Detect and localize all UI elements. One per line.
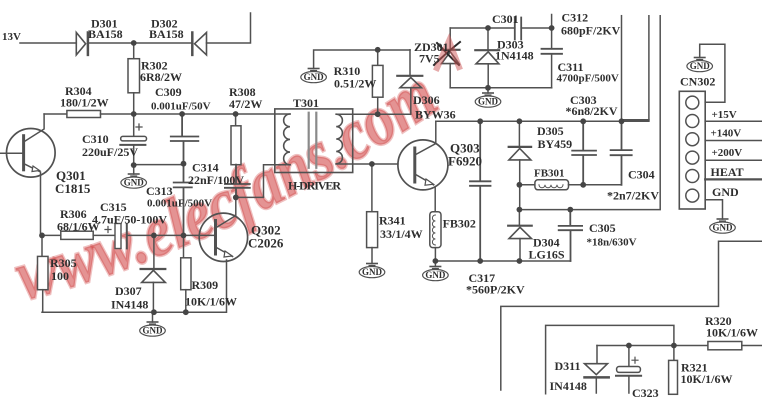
svg-text:IN4148: IN4148 — [111, 298, 148, 312]
svg-text:*2n7/2KV: *2n7/2KV — [607, 189, 659, 203]
svg-text:10K/1/6W: 10K/1/6W — [185, 295, 237, 309]
svg-text:IN4148: IN4148 — [550, 379, 587, 393]
svg-text:D311: D311 — [555, 359, 581, 373]
svg-text:22nF/100V: 22nF/100V — [188, 173, 244, 187]
svg-text:C310: C310 — [82, 132, 109, 146]
svg-text:C301: C301 — [492, 12, 519, 26]
svg-text:0.001uF/500V: 0.001uF/500V — [147, 198, 212, 210]
svg-text:7V5: 7V5 — [419, 52, 440, 66]
svg-text:180/1/2W: 180/1/2W — [60, 96, 109, 110]
svg-text:LG16S: LG16S — [529, 248, 565, 262]
svg-text:10K/1/6W: 10K/1/6W — [681, 372, 733, 386]
svg-text:D306: D306 — [413, 93, 440, 107]
svg-text:C309: C309 — [155, 85, 182, 99]
svg-text:0.001uF/50V: 0.001uF/50V — [151, 101, 211, 113]
svg-text:68/1/6W: 68/1/6W — [57, 220, 100, 234]
svg-text:C323: C323 — [632, 386, 659, 400]
svg-text:R309: R309 — [192, 278, 219, 292]
svg-text:C1815: C1815 — [55, 181, 91, 196]
svg-text:*18n/630V: *18n/630V — [587, 237, 637, 249]
svg-text:*6n8/2KV: *6n8/2KV — [566, 104, 618, 118]
svg-text:C2026: C2026 — [248, 236, 284, 251]
svg-text:BY459: BY459 — [538, 137, 573, 151]
svg-text:*560P/2KV: *560P/2KV — [466, 283, 525, 297]
svg-text:BYW36: BYW36 — [415, 108, 456, 122]
svg-text:+200V: +200V — [712, 147, 743, 159]
svg-text:GND: GND — [712, 185, 739, 199]
svg-text:BA158: BA158 — [88, 27, 123, 41]
svg-text:F6920: F6920 — [448, 154, 482, 169]
svg-text:+15V: +15V — [712, 109, 737, 121]
svg-text:C305: C305 — [589, 221, 616, 235]
svg-text:10K/1/6W: 10K/1/6W — [706, 326, 758, 340]
svg-text:4700pF/500V: 4700pF/500V — [557, 73, 619, 85]
svg-text:220uF/25V: 220uF/25V — [82, 145, 138, 159]
svg-text:R305: R305 — [50, 256, 77, 270]
svg-text:+140V: +140V — [711, 128, 742, 140]
svg-text:CN302: CN302 — [680, 75, 715, 89]
svg-text:C313: C313 — [146, 184, 173, 198]
svg-text:6R8/2W: 6R8/2W — [140, 70, 182, 84]
svg-text:680pF/2KV: 680pF/2KV — [561, 24, 621, 38]
svg-text:D307: D307 — [115, 284, 142, 298]
svg-text:47/2W: 47/2W — [229, 97, 262, 111]
svg-text:100: 100 — [51, 269, 69, 283]
svg-text:4.7uF/50-100V: 4.7uF/50-100V — [92, 213, 167, 227]
svg-text:D305: D305 — [537, 124, 564, 138]
svg-text:FB302: FB302 — [443, 217, 476, 231]
svg-text:33/1/4W: 33/1/4W — [380, 227, 423, 241]
svg-text:C312: C312 — [562, 11, 589, 25]
svg-text:C304: C304 — [628, 168, 655, 182]
svg-text:H-DRIVER: H-DRIVER — [288, 179, 341, 193]
svg-text:1N4148: 1N4148 — [495, 49, 534, 63]
svg-text:0.51/2W: 0.51/2W — [334, 77, 376, 91]
svg-text:HEAT: HEAT — [711, 165, 744, 179]
svg-text:T301: T301 — [293, 96, 319, 110]
svg-text:R341: R341 — [379, 214, 406, 228]
svg-text:13V: 13V — [2, 31, 21, 43]
svg-text:FB301: FB301 — [534, 168, 565, 180]
svg-text:BA158: BA158 — [149, 27, 184, 41]
